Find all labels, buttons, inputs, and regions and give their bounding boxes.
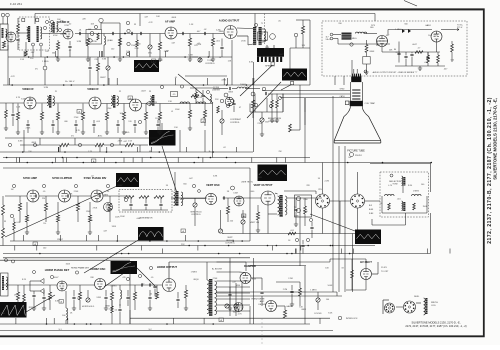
noise limiter parts: [195, 92, 198, 99]
svg-text:VIDEO IF: VIDEO IF: [22, 87, 34, 91]
IF transformer Z1: [49, 95, 51, 108]
row B extra right parts: [271, 100, 274, 108]
waveform photo W1: [134, 60, 159, 72]
picture tube CRT funnel: [334, 108, 381, 144]
svg-text:B+ 140 V.: B+ 140 V.: [65, 81, 75, 83]
row C plate resistors: [18, 203, 21, 211]
svg-text:SYNC AMP: SYNC AMP: [23, 176, 37, 180]
wire HV lead: [365, 259, 367, 269]
svg-text:270K: 270K: [158, 60, 163, 62]
boxed part markers: [77, 110, 81, 114]
row D riser wires: [129, 262, 131, 324]
svg-text:1 MEG: 1 MEG: [413, 191, 420, 193]
tube V14b vertical oscillator b: [234, 196, 244, 206]
waveform photo W3: [282, 69, 307, 81]
svg-text:HORIZ HOLD: HORIZ HOLD: [82, 306, 95, 308]
svg-text:COIL TRAP: COIL TRAP: [365, 102, 376, 105]
wire W4 photo stem: [161, 123, 163, 132]
sound det circles: [46, 21, 49, 24]
crease dashed line bottom: [261, 318, 263, 345]
svg-text:.0047: .0047: [53, 277, 59, 279]
wire bus row C y253: [3, 253, 431, 255]
wire pointer diagonal photo W6 short: [84, 239, 140, 273]
yoke box coils: [402, 176, 403, 186]
wire pointer diagonal photo W5 long: [5, 186, 117, 237]
terminal above CRT: [364, 70, 367, 73]
svg-text:.0047: .0047: [412, 44, 418, 46]
transformer T4 vertical output: [280, 195, 283, 217]
row C coupling caps: [35, 194, 36, 197]
wire riser x253: [253, 62, 255, 152]
AGC bus stubs: [39, 138, 41, 145]
svg-text:SYNC CLIPPER: SYNC CLIPPER: [52, 176, 72, 180]
tube V11 sync amplifier: [27, 190, 39, 202]
wire AGC keyer: [250, 265, 306, 267]
tube V17 horizontal oscillator: [95, 279, 106, 290]
svg-text:80: 80: [394, 49, 396, 51]
svg-text:CONTROL: CONTROL: [230, 122, 241, 124]
resistor bleeder 1: [427, 55, 430, 63]
vert linearity: [241, 220, 245, 224]
svg-text:INTERLOCK: INTERLOCK: [346, 318, 358, 320]
wire CRT base to power box: [353, 69, 355, 74]
video output cluster: [220, 99, 224, 103]
wire CRT grid network: [299, 94, 301, 131]
tube V20 HV rectifier: [361, 269, 372, 280]
wire sockets to yoke box: [322, 208, 324, 234]
integrator network box: [119, 190, 172, 213]
svg-text:AF AMP: AF AMP: [165, 20, 175, 24]
svg-text:CONTROL: CONTROL: [205, 63, 216, 65]
svg-text:120K: 120K: [155, 118, 160, 120]
capacitor C4 coupling: [204, 32, 205, 35]
svg-text:1 MEG: 1 MEG: [123, 132, 130, 134]
tube V1 RF amplifier: [6, 32, 16, 42]
IF can bottom leads: [32, 46, 34, 57]
resistor R1: [86, 38, 89, 46]
speaker block W2: [257, 48, 284, 57]
yoke connector block: [295, 195, 312, 217]
audio section boundary wire: [185, 75, 227, 77]
svg-text:CONTROL: CONTROL: [225, 243, 236, 245]
picture tube CRT gun elements: [352, 90, 360, 99]
svg-text:680K: 680K: [32, 142, 37, 144]
dashed chassis line: [264, 14, 266, 45]
wire sound IF riser: [119, 23, 121, 56]
tube V15 vertical output: [261, 191, 275, 205]
svg-text:270K: 270K: [118, 140, 123, 142]
vert yoke bottom parts: [288, 232, 296, 235]
svg-text:8.2K: 8.2K: [21, 99, 26, 101]
capacitor C5 audio: [220, 47, 223, 48]
wire pointer diagonal photo W4: [162, 146, 177, 193]
wire row A signal path: [16, 32, 27, 34]
row D mid cluster: [290, 291, 293, 292]
svg-text:270K: 270K: [64, 25, 69, 27]
IF transformer Z2: [113, 95, 115, 108]
vert section terminals: [192, 184, 195, 187]
svg-text:SPEAKER: SPEAKER: [265, 65, 275, 68]
vert height control: [218, 229, 222, 233]
tube V5 rectifier 1: [377, 36, 388, 47]
svg-text:120K: 120K: [111, 226, 116, 228]
svg-text:5%: 5%: [43, 223, 46, 225]
resistor R2: [118, 38, 121, 46]
wire bus row B y157: [3, 157, 310, 159]
svg-text:3.3M: 3.3M: [77, 41, 82, 43]
wire pointer diagonal photo W3: [247, 82, 281, 118]
svg-text:VIDEO IF: VIDEO IF: [87, 87, 99, 91]
svg-text:150K: 150K: [120, 216, 125, 218]
socket riser wires: [322, 163, 324, 195]
tube V4 audio output: [224, 26, 237, 39]
waveform photo W4 response curve: [149, 130, 176, 146]
phase det input caps: [32, 295, 35, 296]
horiz out screen parts: [184, 290, 187, 298]
svg-text:680K: 680K: [370, 51, 375, 53]
left edge stack parts: [17, 24, 20, 32]
row C right cluster near vert output: [294, 209, 297, 210]
boxed 4.5MC label: [171, 92, 178, 97]
svg-text:COIL: COIL: [431, 305, 437, 307]
row D caps: [42, 297, 45, 298]
sound discriminator extra parts: [43, 66, 47, 70]
svg-text:(SEE TEXT): (SEE TEXT): [242, 182, 253, 184]
wire vertical riser x455: [430, 163, 432, 193]
terminal circles sound discriminator: [43, 26, 46, 29]
svg-text:3.9K: 3.9K: [198, 97, 203, 99]
resistor R5 grid: [211, 38, 214, 46]
resistor CRT grid: [276, 100, 279, 108]
wire bus row C y257: [3, 257, 250, 259]
svg-text:1.5K: 1.5K: [174, 127, 179, 129]
svg-text:1 MEG: 1 MEG: [42, 61, 49, 63]
tube V13b phase inverter b: [104, 203, 113, 212]
svg-text:DEFL: DEFL: [414, 296, 420, 298]
svg-text:2.2M: 2.2M: [396, 52, 401, 54]
svg-text:4.7K: 4.7K: [149, 22, 154, 24]
svg-text:PICTURE TUBE: PICTURE TUBE: [347, 149, 365, 152]
svg-text:HORIZ OSC: HORIZ OSC: [91, 267, 106, 271]
wire pointer diagonal audio: [178, 74, 213, 103]
coil L1 quadrature: [104, 36, 106, 45]
wire heater run: [377, 40, 388, 42]
svg-text:8.2K: 8.2K: [265, 47, 270, 49]
wire pointer diagonal photo W8: [310, 214, 355, 231]
svg-text:120K: 120K: [107, 108, 112, 110]
svg-text:INTEGRATOR: INTEGRATOR: [140, 217, 153, 220]
svg-text:6AU4: 6AU4: [286, 305, 292, 308]
svg-text:2172, 2137, 2170-B, 2177, 2187: 2172, 2137, 2170-B, 2177, 2187 (Ch. 100.…: [487, 97, 493, 244]
svg-text:8.2K: 8.2K: [252, 279, 257, 281]
svg-text:4.7K: 4.7K: [11, 76, 16, 78]
svg-text:270K: 270K: [29, 99, 34, 101]
svg-text:AUDIO OUTPUT CIRCUIT - USED IN: AUDIO OUTPUT CIRCUIT - USED IN SERIES "Y…: [373, 71, 418, 74]
waveform photo W5: [116, 173, 139, 187]
svg-text:150K: 150K: [65, 264, 70, 266]
svg-text:F-10 261: F-10 261: [10, 2, 22, 6]
svg-text:680K: 680K: [301, 309, 306, 311]
svg-text:3.3M: 3.3M: [44, 87, 49, 89]
coil T7 sound takeoff: [237, 87, 249, 89]
volume control: [148, 45, 152, 49]
svg-text:2.2M: 2.2M: [283, 289, 288, 291]
svg-text:8.2K: 8.2K: [22, 279, 27, 281]
transformer T3 vertical blocking oscillator: [176, 191, 179, 206]
svg-text:QUAD: QUAD: [107, 39, 113, 42]
wire speaker to output: [289, 48, 291, 69]
wire CRT gun leads: [262, 90, 350, 92]
svg-text:270K: 270K: [74, 117, 79, 119]
svg-text:500K: 500K: [328, 285, 333, 287]
picture tube CRT neck: [349, 82, 351, 108]
svg-text:120K: 120K: [188, 54, 193, 56]
transformer T1 sound output: [253, 27, 256, 45]
svg-text:220K: 220K: [74, 191, 79, 193]
svg-text:CATH: CATH: [339, 95, 345, 98]
marker box below speaker: [271, 62, 274, 65]
waveform photo W9 sawtooth: [0, 302, 27, 318]
svg-text:TO CRT: TO CRT: [381, 271, 389, 273]
svg-text:3.3M: 3.3M: [102, 59, 107, 61]
svg-text:VERT: VERT: [227, 237, 233, 239]
resistor choke 4.7: [415, 51, 423, 54]
waveform photo W6 sine: [138, 227, 164, 241]
yoke top wires: [370, 163, 431, 165]
wire tuner to IF: [7, 45, 9, 85]
wire HV run: [217, 261, 331, 263]
horiz osc extra: [138, 274, 141, 277]
capacitor C1: [79, 32, 80, 35]
svg-text:YOKE: YOKE: [392, 184, 398, 186]
tube socket S3: [385, 303, 395, 313]
svg-text:1.5K: 1.5K: [128, 141, 133, 143]
svg-text:680K: 680K: [105, 306, 110, 308]
transformer T2 power: [342, 33, 352, 41]
svg-text:B+ BOOST: B+ BOOST: [212, 269, 223, 271]
wire audio B+: [231, 40, 233, 57]
node junction dots row A: [64, 33, 66, 35]
tube socket S2: [351, 194, 365, 208]
video detector diode: [146, 101, 150, 106]
svg-text:150K: 150K: [175, 109, 180, 111]
svg-text:HORIZ PHASE DET: HORIZ PHASE DET: [71, 267, 90, 270]
vert row risers: [267, 214, 269, 234]
interlock coil: [356, 32, 367, 33]
wire T4 top to socket: [284, 190, 316, 192]
svg-text:HORIZ DRIVE: HORIZ DRIVE: [252, 299, 266, 301]
svg-text:1.5K: 1.5K: [189, 24, 194, 26]
video out plate coil: [210, 94, 211, 102]
svg-text:1.5K: 1.5K: [168, 101, 173, 103]
svg-text:.0047: .0047: [279, 54, 285, 56]
svg-text:AGC: AGC: [98, 135, 103, 138]
horiz hold control: [86, 298, 90, 302]
bottom mid lines: [130, 317, 330, 319]
tube V13 sync phase inverter: [91, 190, 103, 202]
svg-text:1500: 1500: [303, 199, 307, 201]
coil T8 width coil: [424, 298, 426, 315]
svg-text:270K: 270K: [0, 313, 5, 315]
width pot: [234, 304, 238, 308]
wire bus row D y330: [0, 330, 333, 332]
wire row B signal path: [0, 102, 24, 104]
svg-text:6.8K: 6.8K: [17, 222, 22, 224]
wire CRT drive verticals: [254, 94, 256, 113]
svg-text:WIDTH: WIDTH: [233, 312, 240, 314]
vert osc grid cap: [223, 196, 224, 199]
wire bus row B y152: [0, 151, 253, 153]
capacitor C3: [182, 32, 183, 35]
wire CRT neck lead risers: [299, 85, 301, 94]
svg-text:HORIZ OUTPUT: HORIZ OUTPUT: [157, 265, 178, 269]
wire damper circuit: [217, 271, 241, 273]
wire yoke return lines: [217, 291, 338, 293]
wire bus row B y168: [3, 167, 250, 169]
svg-text:2172, 2137, 2170-B, 2177, 2187: 2172, 2137, 2170-B, 2177, 2187 (Ch. 100.…: [405, 324, 466, 328]
wire bus row C y241: [10, 240, 250, 242]
resistor R4 plate load: [188, 38, 191, 46]
terminal horiz drive: [149, 266, 152, 269]
terminal below T2: [350, 43, 353, 46]
row B grid resistors: [16, 112, 19, 120]
terminal sound IF top: [99, 18, 103, 22]
row A right corner parts: [294, 33, 298, 37]
terminal picture tube type: [349, 152, 353, 156]
svg-text:PIN: PIN: [318, 189, 322, 191]
video out components: [188, 110, 191, 118]
tube V2 bias parts: [56, 42, 59, 50]
tube V14 vertical oscillator: [205, 193, 216, 204]
wire audio output plate to T1: [237, 27, 253, 30]
svg-text:1.2K: 1.2K: [88, 151, 93, 153]
terminals column x128: [126, 21, 129, 24]
tube V7 video IF 1: [24, 97, 36, 109]
focus control: [316, 298, 320, 302]
svg-text:680K: 680K: [219, 31, 224, 33]
svg-text:15 KV: 15 KV: [381, 267, 387, 269]
wire video to CRT cathode: [249, 104, 251, 113]
svg-text:VERT HOLD: VERT HOLD: [190, 212, 202, 214]
left edge row B parts: [5, 110, 8, 118]
vert hold control: [193, 203, 197, 207]
svg-text:6.8K: 6.8K: [213, 176, 218, 178]
resistor bleeder 2: [437, 55, 440, 63]
det area circles: [160, 85, 163, 88]
wire rect output rail: [381, 47, 383, 52]
wire T3 to V14: [183, 198, 206, 200]
svg-text:5%: 5%: [35, 68, 38, 70]
left edge sync resistors: [2, 205, 5, 215]
ground symbols row A: [56, 57, 60, 61]
svg-text:680K: 680K: [172, 17, 177, 19]
T1 secondary box: [258, 32, 268, 40]
wire socket S3 S4 leads: [382, 300, 384, 314]
wire pointer diagonal photo W10: [137, 268, 155, 286]
svg-text:120K: 120K: [86, 211, 91, 213]
capacitor C2: [112, 32, 113, 35]
IF can trimmer squares: [22, 19, 25, 22]
svg-text:.0047: .0047: [136, 218, 142, 220]
wire pointer top right corner: [404, 1, 417, 7]
svg-text:4.7K: 4.7K: [238, 314, 243, 316]
svg-text:1 MEG: 1 MEG: [191, 272, 198, 274]
svg-text:270K: 270K: [257, 123, 262, 125]
filter cap bank: [398, 42, 400, 63]
speaker wires: [266, 45, 268, 48]
tube V19 damper: [240, 273, 251, 284]
svg-text:6BQ6: 6BQ6: [193, 279, 199, 281]
terminal interlock: [338, 316, 342, 320]
svg-text:1M: 1M: [11, 189, 14, 191]
svg-text:8.2K: 8.2K: [328, 313, 333, 315]
tube V12 sync clipper: [59, 190, 71, 202]
tone control: [198, 58, 202, 62]
wire pointer diagonal photo W9: [26, 295, 55, 312]
svg-text:SILVERTONE MODELS 2130, 2170-D: SILVERTONE MODELS 2130, 2170-D, -E,: [411, 321, 460, 325]
tuner block: [0, 24, 8, 50]
sound takeoff trap: [224, 93, 228, 97]
svg-text:SW: SW: [338, 23, 341, 25]
row B terminal circles: [8, 143, 11, 146]
wire power box to CRT base: [351, 60, 353, 78]
wire riser x250 rowC: [249, 168, 251, 241]
svg-text:270K: 270K: [26, 127, 31, 129]
horiz drive cap: [149, 283, 150, 286]
waveform photo W10: [111, 261, 138, 274]
svg-text:FOCUS: FOCUS: [315, 313, 323, 315]
tube V22 horiz freq: [234, 303, 243, 312]
wire pointer diagonal speaker: [240, 66, 272, 97]
picture tube CRT base pins: [352, 74, 353, 77]
svg-text:3.3M: 3.3M: [96, 297, 101, 299]
tube V18 horizontal output: [163, 279, 176, 292]
horiz lock coil box: [1, 273, 9, 296]
svg-text:270K: 270K: [213, 278, 218, 280]
wire flyback taps: [217, 280, 251, 282]
svg-text:SILVERTONE MODELS 2130, 2170-D: SILVERTONE MODELS 2130, 2170-D, -E,: [493, 98, 498, 180]
transformer T5 flyback horizontal output: [209, 279, 212, 316]
svg-text:2W: 2W: [279, 151, 282, 153]
transformer T6 IF cans in tuner box: [28, 26, 30, 42]
wire filter ground rail: [395, 65, 445, 67]
wire row C signal path: [5, 195, 27, 197]
row C cathode parts: [25, 215, 28, 222]
tube socket S4: [404, 301, 416, 313]
svg-text:6.8K: 6.8K: [180, 199, 185, 201]
svg-text:470K: 470K: [92, 41, 97, 43]
picture tube CRT base cap: [351, 77, 361, 83]
svg-text:6.8K: 6.8K: [249, 62, 254, 64]
svg-text:3.3M: 3.3M: [233, 193, 238, 195]
bus stub wires scatter: [164, 51, 166, 57]
selenium stack: [402, 29, 411, 33]
svg-text:680K: 680K: [228, 91, 233, 93]
HV cage components: [351, 270, 354, 278]
svg-text:2.2M: 2.2M: [288, 278, 293, 280]
wire horiz out plate: [168, 262, 170, 279]
svg-text:120K: 120K: [115, 216, 120, 218]
svg-text:CONTRAST: CONTRAST: [230, 118, 242, 121]
svg-text:150K: 150K: [423, 206, 428, 208]
junction dots scatter: [56, 56, 58, 58]
svg-text:BUZZ: BUZZ: [100, 77, 106, 79]
wire bus row C y245: [0, 245, 375, 247]
marker box below photo W3: [291, 82, 294, 85]
tube V6 cathode wire: [436, 42, 438, 52]
picture tube ion trap square: [345, 101, 349, 105]
wire noise limiter drop: [212, 104, 214, 158]
